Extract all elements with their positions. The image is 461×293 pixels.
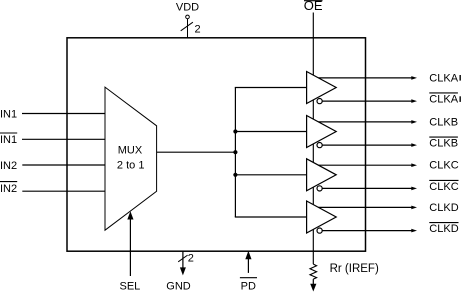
svg-text:Rr (IREF): Rr (IREF) xyxy=(330,263,379,275)
svg-text:IN2: IN2 xyxy=(0,183,17,195)
svg-text:PD: PD xyxy=(241,281,256,293)
svg-text:CLKB: CLKB xyxy=(429,138,458,150)
svg-text:MUX: MUX xyxy=(118,145,143,157)
svg-text:CLKB: CLKB xyxy=(429,116,458,128)
svg-text:2: 2 xyxy=(195,23,201,35)
svg-text:CLKC: CLKC xyxy=(429,181,458,193)
svg-text:2: 2 xyxy=(188,253,194,265)
svg-text:VDD: VDD xyxy=(176,2,199,14)
svg-text:CLKA: CLKA xyxy=(429,72,458,84)
svg-text:IN1: IN1 xyxy=(0,108,17,120)
svg-text:CLKD: CLKD xyxy=(429,202,458,214)
svg-text:GND: GND xyxy=(166,280,191,292)
svg-text:CLKD: CLKD xyxy=(429,223,458,235)
svg-text:OE: OE xyxy=(304,0,323,13)
svg-text:IN1: IN1 xyxy=(0,134,17,146)
svg-text:IN2: IN2 xyxy=(0,160,17,172)
svg-text:2 to 1: 2 to 1 xyxy=(117,159,145,171)
svg-text:CLKC: CLKC xyxy=(429,160,458,172)
svg-text:CLKA: CLKA xyxy=(429,94,458,106)
svg-text:SEL: SEL xyxy=(120,280,141,292)
